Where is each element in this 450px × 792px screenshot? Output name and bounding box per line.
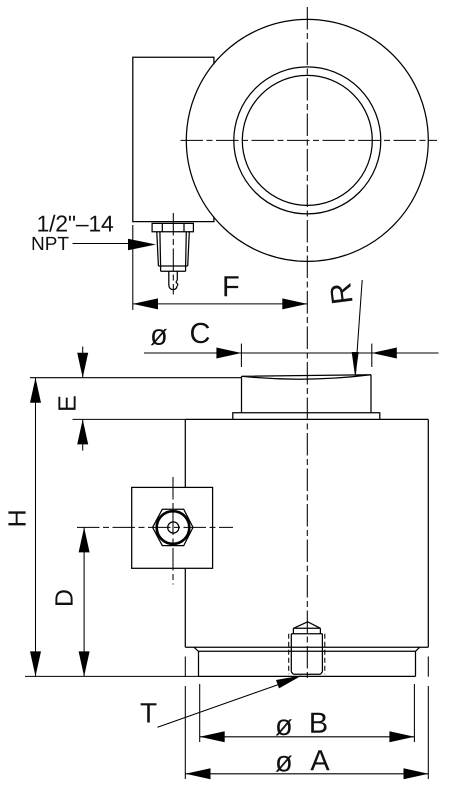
dimension A line	[186, 773, 429, 775]
dimension C right arrow	[372, 348, 397, 359]
block vertical centerline	[172, 477, 174, 585]
dimension A left arrow	[186, 768, 211, 779]
connector threaded body (top view)	[157, 232, 190, 266]
dimension F right arrow	[282, 298, 307, 309]
dimension F left arrow	[133, 298, 158, 309]
dimension C line	[144, 352, 439, 354]
block horizontal centerline	[77, 526, 233, 528]
dimension F text	[224, 276, 238, 296]
cylinder body (front view)	[185, 419, 428, 647]
dimension A text	[276, 756, 292, 772]
load button cap (front view)	[242, 375, 372, 413]
cap top extension line	[30, 377, 242, 379]
dimension H line	[35, 378, 37, 677]
dimension D top arrow	[79, 527, 90, 552]
bottom boss hidden thread lines	[289, 634, 325, 674]
connector hex flange (top view)	[152, 223, 193, 231]
bottom boss neck	[293, 628, 320, 634]
dimension H bottom arrow	[30, 651, 41, 676]
base ring (front view)	[199, 651, 416, 676]
NPT leader line	[73, 243, 131, 245]
bottom boss cone tip	[293, 622, 320, 629]
dimension H top arrow	[30, 378, 41, 403]
cylinder bottom edge and chamfer	[185, 647, 428, 651]
T leader line	[158, 684, 281, 727]
dimension B right arrow	[389, 731, 414, 742]
connector tip (top view)	[161, 266, 186, 271]
dimension A right arrow	[404, 768, 429, 779]
dimension A extension lines	[185, 657, 428, 780]
cap flange (front view)	[233, 413, 380, 420]
cable	[169, 271, 178, 289]
dimension C text	[151, 329, 167, 345]
connector housing (top view)	[133, 57, 214, 221]
connector centerline	[172, 213, 174, 295]
dimension D text	[55, 590, 72, 605]
dimension C left arrow	[216, 348, 241, 359]
dimension E lower shaft	[82, 419, 84, 450]
dimension E text	[58, 396, 75, 410]
dimension B text	[276, 719, 292, 735]
dimension E upper arrow	[77, 353, 88, 378]
dimension D bottom arrow	[79, 651, 90, 676]
top view outer circle	[186, 19, 428, 261]
cylinder top extension line	[73, 418, 186, 420]
dimension C extension lines	[241, 344, 371, 367]
dimension D line	[83, 527, 85, 676]
bottom extension line to left	[25, 675, 199, 677]
dimension H text	[8, 511, 25, 525]
T text	[141, 703, 157, 722]
dimension F extension line	[132, 225, 134, 310]
top view cap circle	[242, 75, 372, 205]
dimension B extension lines	[200, 684, 415, 742]
dimension B line	[200, 736, 415, 738]
top view flange circle	[234, 67, 381, 214]
NPT leader arrow	[128, 239, 156, 251]
dimension E lower arrow	[77, 419, 88, 444]
radius R arrow	[352, 352, 359, 377]
radius R text	[330, 283, 353, 303]
top view horizontal centerline	[181, 139, 438, 141]
bottom boss body	[291, 634, 322, 674]
dimension E upper shaft	[82, 347, 84, 378]
hex small circle	[168, 522, 179, 533]
T leader arrow	[276, 675, 302, 688]
hex chamfer circle	[157, 511, 190, 544]
dimension B left arrow	[200, 731, 225, 742]
label 1/2"-14 NPT	[38, 215, 113, 232]
radius R leader line	[356, 280, 363, 374]
side block (front view)	[132, 487, 213, 568]
hex nut on block	[153, 509, 193, 545]
dimension F line	[133, 303, 307, 305]
vertical centerline (common axis)	[306, 7, 308, 681]
